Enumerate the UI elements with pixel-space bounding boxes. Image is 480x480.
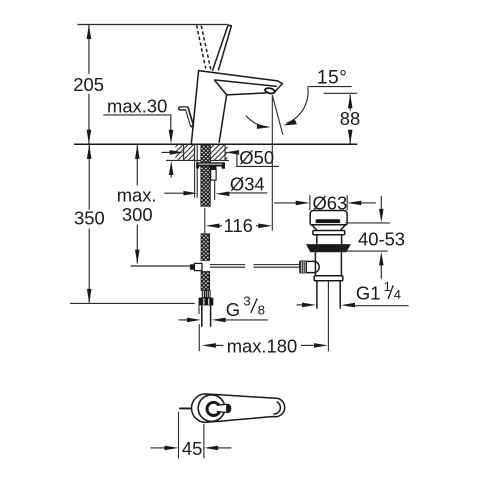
- svg-text:4: 4: [394, 287, 401, 302]
- dimension max.300 line: [136, 145, 138, 264]
- dimension 40-53 line and arrows: [380, 196, 382, 209]
- dimension Ø50 left arrow: [162, 151, 171, 153]
- supply hose lower braid: [201, 272, 210, 291]
- dimension 205 arrows: [87, 25, 92, 39]
- dimension max.180 extension lines: [198, 324, 200, 351]
- collar: [313, 231, 345, 235]
- faucet centerline: [204, 208, 206, 234]
- countertop line: [74, 143, 357, 145]
- dimension G1 1/4 left arrow: [297, 304, 303, 306]
- handle ring: [207, 402, 220, 415]
- supply hose upper braid: [201, 234, 210, 261]
- svg-text:Ø34: Ø34: [230, 174, 265, 195]
- knurled adjuster knob: [299, 261, 307, 274]
- dome-to-neck taper: [311, 225, 347, 231]
- svg-text:88: 88: [340, 108, 360, 129]
- hose end ferrule: [202, 290, 210, 297]
- svg-text:15°: 15°: [317, 67, 348, 88]
- dimension 350 line: [88, 145, 90, 303]
- dimension G3/8 right arrow and underline: [212, 318, 226, 323]
- dimension 45 left arrow: [150, 447, 165, 449]
- handle side view capsule: [192, 394, 285, 423]
- svg-text:G1: G1: [356, 283, 381, 304]
- threaded shank: [201, 145, 210, 206]
- joystick stub: [217, 404, 231, 412]
- faucet top-face inner edge: [214, 80, 276, 87]
- dimension 88 line: [349, 95, 351, 144]
- svg-text:300: 300: [122, 204, 153, 225]
- pop-up rod left segment: [131, 265, 190, 267]
- dimension Ø63 extension lines: [310, 195, 347, 210]
- spout stream vertical line / 116 extension: [271, 95, 273, 230]
- svg-text:max.30: max.30: [107, 96, 167, 117]
- dimension 88 arrows: [348, 94, 353, 108]
- faucet spout underside: [227, 93, 267, 95]
- dimension max.180 arrows: [202, 343, 216, 348]
- max.30 underline and leader: [103, 115, 171, 130]
- handle cap inner arc: [273, 402, 280, 414]
- rubber seal: [306, 244, 351, 252]
- hose connection nut: [199, 298, 214, 306]
- dimension Ø34 left arrow: [164, 192, 184, 194]
- pop-up waste dome flange: [310, 211, 347, 225]
- counter underside line: [166, 159, 229, 161]
- aerator: [265, 87, 276, 94]
- tailpipe G1 1/4: [317, 281, 340, 309]
- max.30 arrow down (counter top): [169, 130, 174, 144]
- upper body: [317, 235, 342, 245]
- dimension 45 extension lines: [179, 412, 204, 459]
- dimension G1 1/4 right arrow and underline: [341, 303, 355, 308]
- rod port cylinder: [307, 261, 316, 272]
- svg-text:max.180: max.180: [227, 336, 298, 357]
- rod clevis block: [190, 264, 195, 269]
- dimension 350 arrows: [87, 145, 92, 159]
- lever (dashed alternate position): [197, 25, 211, 69]
- dimension Ø50 extension lines: [184, 145, 226, 161]
- 15 degree tilted stream line: [272, 95, 283, 135]
- dimension Ø63 left arrow: [274, 202, 296, 204]
- pop-up rod tube below deck: [195, 145, 198, 198]
- dimension 116 arrows and line: [206, 224, 220, 229]
- svg-text:3: 3: [243, 294, 250, 309]
- svg-text:Ø50: Ø50: [239, 147, 274, 168]
- max.30 arrow up (counter bottom): [169, 161, 174, 175]
- dimension Ø50 right arrow and leader: [225, 150, 239, 155]
- handle screw tick: [180, 407, 191, 409]
- dimension Ø34 right arrow and underline: [215, 192, 229, 197]
- pop-up plug: [316, 219, 341, 223]
- dimension 40-53 extension lines: [339, 223, 390, 251]
- lever (solid position): [212, 25, 231, 70]
- faucet body right edge: [219, 95, 227, 143]
- extension line at supply hose end: [70, 302, 195, 304]
- svg-text:Ø63: Ø63: [313, 192, 348, 213]
- faucet body outline: [191, 71, 282, 144]
- dimension G3/8 left arrow: [179, 319, 188, 321]
- handle boss circle: [198, 395, 225, 422]
- svg-text:max.: max.: [117, 185, 157, 206]
- arc right arrowhead: [283, 120, 297, 126]
- G3/8 pipe: [202, 305, 211, 326]
- lower collar: [314, 276, 343, 281]
- mounting washer: [196, 162, 225, 166]
- svg-text:205: 205: [73, 74, 104, 95]
- extension line top (lever tip level): [78, 24, 229, 26]
- svg-text:350: 350: [74, 208, 105, 229]
- svg-text:40-53: 40-53: [358, 229, 405, 250]
- svg-text:8: 8: [258, 303, 265, 318]
- dimension 45 right arrow: [204, 446, 218, 451]
- 88 extension line at spout outlet: [324, 92, 358, 94]
- svg-text:116: 116: [224, 215, 253, 236]
- waste body: [315, 252, 341, 275]
- 15 degree underline: [308, 86, 352, 88]
- svg-text:45: 45: [182, 438, 202, 459]
- dimension Ø63 right arrow: [347, 201, 361, 206]
- svg-text:1: 1: [384, 279, 391, 294]
- pop-up rod right segments: [210, 265, 299, 268]
- fixing clamp: [210, 166, 216, 170]
- nut lower stub: [198, 305, 200, 314]
- faucet front crease: [214, 80, 226, 95]
- pop-up rod knob: [180, 108, 192, 125]
- dimension max.300 arrows: [135, 145, 140, 159]
- countertop hatch band: [175, 145, 227, 160]
- clamp screw: [214, 180, 216, 200]
- joystick ball end: [226, 404, 231, 413]
- arc left arrowhead: [257, 124, 271, 129]
- svg-text:G: G: [226, 299, 240, 320]
- dimension 205 line: [88, 25, 90, 144]
- arc left segment: [246, 116, 267, 127]
- arc right segment: [287, 87, 309, 123]
